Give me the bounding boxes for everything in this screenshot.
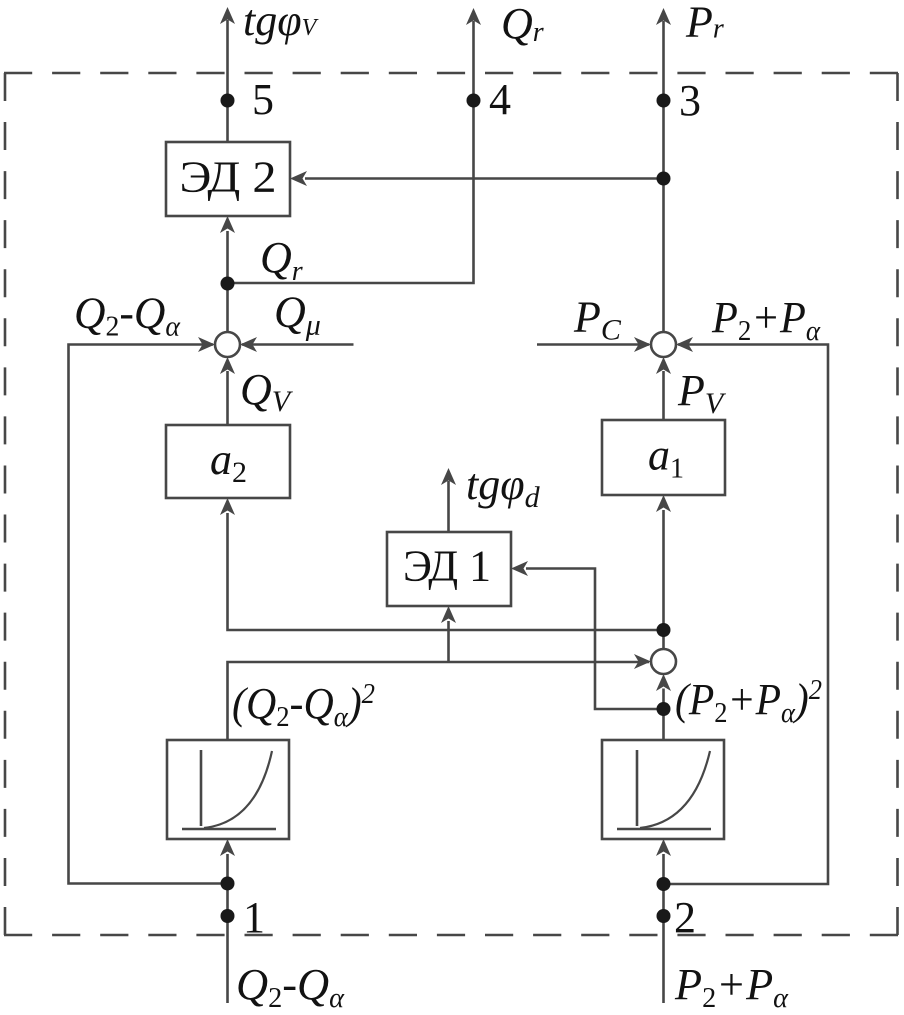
block a1 box: [602, 420, 725, 495]
squarer 1 x-axis: [182, 828, 276, 831]
arrowhead Qr up: [466, 8, 481, 25]
svg-text:Qr: Qr: [501, 0, 544, 48]
arrowhead into S1 left: [198, 337, 215, 352]
svg-text:tgφV: tgφV: [243, 0, 319, 45]
svg-text:4: 4: [489, 75, 511, 124]
node left feedback branch dot: [221, 877, 235, 891]
arrowhead tgphiV up: [220, 7, 235, 24]
wire left feedback (node1 to circle1 left): [69, 345, 228, 884]
node 3 dot: [657, 94, 671, 108]
svg-text:P2+Pα: P2+Pα: [711, 293, 821, 347]
dashed enclosure border: [4, 72, 899, 75]
wire a2 input (from y630 bus up into a2): [228, 513, 664, 630]
arrowhead into ED2 right: [290, 171, 307, 186]
wire Qmu stub: [242, 343, 354, 346]
svg-text:PV: PV: [677, 366, 727, 420]
arrowhead into ED2 bottom: [220, 216, 235, 233]
block a2 box: [166, 425, 290, 498]
svg-text:Pr: Pr: [685, 0, 724, 47]
svg-text:ЭД 1: ЭД 1: [403, 542, 491, 591]
block squarer 1 box: [167, 740, 289, 839]
svg-text:(P2+Pα)2: (P2+Pα)2: [675, 675, 822, 729]
wire sq2 input (node to sq box bottom): [662, 854, 665, 884]
squarer 2 x-axis: [617, 828, 711, 831]
summing circle S2 (right): [651, 332, 676, 357]
block ED1 box: [387, 532, 511, 606]
arrowhead into S2 bottom: [656, 357, 671, 374]
summing circle S3 (lower right): [651, 649, 676, 674]
wire Pr output (circle2 top to top): [662, 21, 665, 332]
wire ED1 right input (node P2 left around to ED1): [526, 569, 664, 710]
squarer 2 y-axis: [636, 750, 639, 826]
wire right feedback (node2 to circle2 right): [664, 345, 829, 885]
arrowhead into ED1 bottom: [441, 606, 456, 623]
wire sq2 output (sq box top to node P2): [662, 709, 665, 740]
arrowhead into ED1 right: [511, 561, 528, 576]
arrowhead into S3 left: [634, 654, 651, 669]
wire input 2 (bottom): [662, 884, 665, 1003]
wire ED1 bottom input branch: [447, 621, 450, 662]
wire sq1 output (sq box top to y661 bus): [228, 662, 650, 740]
wire sq1 input (node to sq box bottom): [226, 854, 229, 884]
wire PC stub: [537, 343, 649, 346]
svg-text:Qr: Qr: [260, 233, 303, 287]
node on Pr line (ED2 branch): [657, 172, 671, 186]
squarer 1 curve: [204, 751, 272, 828]
node 4 dot: [467, 94, 481, 108]
block squarer 2 box: [602, 740, 724, 839]
svg-text:Qμ: Qμ: [274, 288, 321, 342]
summing circle S1 (left): [215, 332, 240, 357]
svg-text:QV: QV: [240, 365, 294, 418]
arrowhead into S2 right: [676, 337, 693, 352]
svg-text:(Q2-Qα)2: (Q2-Qα)2: [232, 679, 375, 733]
svg-text:Q2-Qα: Q2-Qα: [74, 289, 181, 343]
wire QV (a2 top to circle1 bottom): [226, 371, 229, 425]
node Qr dot: [221, 277, 235, 291]
node 2 dot: [657, 909, 671, 923]
svg-text:Q2-Qα: Q2-Qα: [236, 960, 345, 1014]
wire ED2 input (from Pr line node to ED2 right): [305, 177, 664, 180]
svg-text:5: 5: [252, 75, 274, 124]
svg-text:tgφd: tgφd: [466, 460, 541, 514]
squarer 2 curve: [640, 751, 710, 828]
node bus y630 dot: [657, 623, 671, 637]
node 5 dot: [221, 94, 235, 108]
wire tgphid output (ED1 top): [447, 481, 450, 532]
arrowhead into S3 bottom: [656, 674, 671, 691]
svg-text:PC: PC: [573, 293, 622, 347]
svg-text:1: 1: [243, 893, 265, 942]
arrowhead tgphid up: [441, 468, 456, 485]
svg-text:P2+Pα: P2+Pα: [674, 960, 789, 1014]
wire tgphiV output (x=227.5 top): [226, 20, 229, 142]
svg-text:3: 3: [679, 76, 701, 125]
squarer 1 y-axis: [200, 750, 203, 826]
arrowhead into squarer1 bottom: [220, 839, 235, 856]
wire ED2 bottom feed (circle1 top to ED2 bottom): [226, 231, 229, 332]
arrowhead Pr up: [656, 8, 671, 25]
arrowhead into S1 bottom: [220, 357, 235, 374]
node (P2+Pa)^2 dot: [657, 702, 671, 716]
svg-text:2: 2: [674, 893, 696, 942]
wire a1 input (circle3 top through node to a1 bottom): [662, 510, 665, 649]
arrowhead into squarer2 bottom: [656, 839, 671, 856]
block ED2 box: [166, 142, 290, 216]
wire Qr branch (node Qr to top output): [228, 21, 474, 283]
wire input 1 (bottom): [226, 884, 229, 1004]
wire circle3 bottom input (node P2 to circle3): [662, 689, 665, 710]
arrowhead into S1 right: [240, 337, 257, 352]
wire PV (a1 top to circle2 bottom): [662, 371, 665, 420]
arrowhead into a1 bottom: [656, 495, 671, 512]
node 1 dot: [221, 909, 235, 923]
arrowhead into S2 left: [634, 337, 651, 352]
svg-text:ЭД 2: ЭД 2: [180, 153, 277, 202]
arrowhead into a2 bottom: [220, 498, 235, 515]
node right feedback branch dot: [657, 877, 671, 891]
